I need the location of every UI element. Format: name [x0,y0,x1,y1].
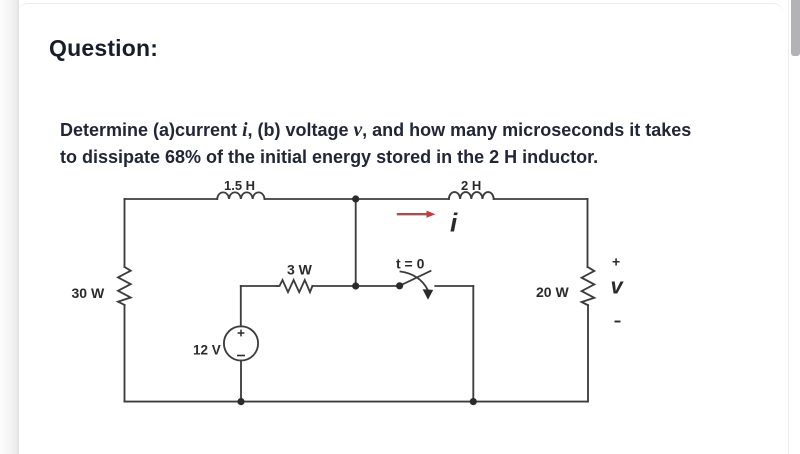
inductor L1 1.5 H [217,192,264,199]
svg-text:20 W: 20 W [536,284,569,300]
junction node bottom left [237,398,244,405]
left page gutter [0,0,18,454]
wire top-right segment [494,198,588,200]
svg-text:v: v [611,274,625,299]
wire left vertical upper [124,199,126,267]
source V1 plus sign [238,330,245,337]
wire middle branch right of resistor to switch [312,285,399,287]
inductor L2 2 H [449,192,494,199]
wire top-middle segment [265,198,449,200]
resistor R2 3 W [277,280,312,292]
svg-text:i: i [450,208,458,238]
wire right vertical lower [587,305,589,401]
svg-text:2 H: 2 H [461,178,481,193]
svg-text:3 W: 3 W [287,262,313,278]
current arrow i (red) [397,211,436,218]
resistor R3 20 W [582,267,595,305]
wire right vertical upper [587,199,589,267]
heading [49,35,158,62]
wire middle vertical from top junction [355,199,357,286]
switch contact node [396,282,403,289]
junction node bottom right [470,398,477,405]
switch motion arc [401,272,428,290]
resistor R1 30 W [118,267,131,305]
wire source branch upper [240,286,242,326]
voltage source V1 circle [224,326,258,360]
scrollbar thumb [791,0,800,56]
wire source branch lower [240,361,242,402]
switch blade [400,271,431,286]
source V1 minus sign [237,355,245,357]
wire switch branch vertical down [472,286,474,402]
junction node top middle [352,195,359,202]
wire top-left segment [125,198,218,200]
wire left vertical lower [124,305,126,402]
junction node middle [352,282,359,289]
switch arrowhead [423,289,434,300]
svg-text:t = 0: t = 0 [396,256,425,272]
svg-text:30 W: 30 W [72,285,105,301]
label polarity minus [615,321,621,323]
wire bottom [125,401,588,403]
wire middle branch left of resistor [241,285,277,287]
svg-text:12 V: 12 V [193,343,221,358]
svg-text:1.5 H: 1.5 H [224,178,255,193]
question paragraph [60,117,770,170]
wire from switch to right corner [435,285,473,287]
svg-text:+: + [612,254,620,270]
